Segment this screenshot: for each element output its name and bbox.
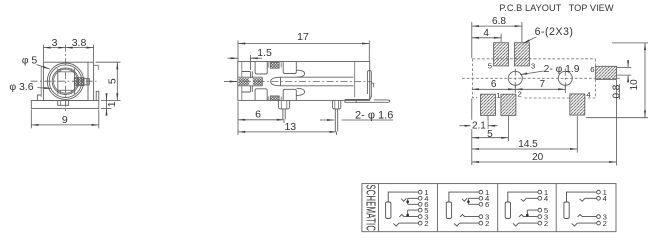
svg-text:2: 2 [485,219,489,228]
top hatch block [268,62,281,68]
wire terminal 4 P4 [580,198,597,201]
dim 5 (pcb) extension [507,116,509,141]
dim 20 [472,152,617,163]
wire terminal 3 P4 [578,215,597,218]
terminal circle 4 P2 [479,194,490,203]
terminal circle 1 P3 [538,188,548,197]
dashed centerline [230,81,372,83]
bushing hole lines [238,77,262,86]
label 2-phi1.9 [520,64,580,75]
svg-text:10: 10 [629,79,640,91]
svg-text:7: 7 [540,79,546,90]
svg-text:6: 6 [491,79,497,90]
dim 5 (right vertical) [107,62,119,100]
right strip tick [371,83,373,87]
dim 10 extensions [586,43,648,118]
dim 6 [238,109,284,121]
right nub pin [84,79,89,85]
bushing hatch left [239,78,250,85]
jack body P2 [446,202,451,219]
svg-text:2: 2 [544,219,548,228]
SIDE VIEW [224,31,393,135]
terminal circle 3 P2 [479,212,489,221]
svg-text:6.8: 6.8 [492,16,506,27]
middle circle phi5 [49,65,82,98]
hole 1 phi1.9 [508,69,522,89]
dim 4 extension [500,34,502,43]
front body right flange [88,62,94,100]
svg-text:TOP VIEW: TOP VIEW [569,3,614,13]
wire terminal 1 P2 [449,192,479,202]
dim 3 / 3.8 extension lines [43,45,93,62]
svg-text:1: 1 [106,101,118,107]
svg-text:2: 2 [518,89,522,98]
terminal circle 1 P4 [597,188,607,197]
wire terminal 2 P4 [572,223,597,226]
pad 1 (bottom) [481,91,501,115]
label phi5 [22,55,50,70]
dim 9 [31,114,99,126]
svg-text:2: 2 [424,219,428,228]
terminal circle 2 P2 [479,219,489,228]
terminal circle 5 P1 [418,206,428,215]
svg-text:2- φ 1.9: 2- φ 1.9 [544,64,580,75]
svg-text:6-(2X3): 6-(2X3) [535,26,574,38]
terminal circle 1 P1 [418,188,428,197]
svg-text:4: 4 [483,28,489,39]
panel 3 [505,188,549,228]
dim 5 extension lines [96,62,121,100]
top contact 2 [283,62,296,74]
terminal circle 2 P1 [418,219,428,228]
svg-text:2: 2 [603,219,607,228]
dim 14.5 [472,139,578,150]
panel divider 2 [497,184,499,232]
dim 3 [43,37,65,49]
pin 2 below body [333,100,341,131]
svg-text:4: 4 [603,194,608,203]
center pin bullet [271,77,281,86]
wire terminal 4 P3 [521,198,538,201]
dim 10 [629,43,645,118]
footprint dashed outline right [523,59,595,98]
right nub hatched [74,78,84,86]
dim 5 (pcb) [472,129,509,140]
dim 20 extension [615,80,617,166]
svg-text:6: 6 [590,65,594,74]
schematic outer box [362,184,616,232]
svg-text:SCHEMATIC: SCHEMATIC [363,184,378,231]
bushing hatch right [253,78,262,85]
horizontal centerline dashed [462,77,621,79]
dim 6 (pcb) [472,79,516,90]
base plate [31,101,99,109]
svg-text:3.8: 3.8 [72,37,87,49]
wire terminal 1 P3 [508,192,538,202]
dim 1.5 [228,47,272,59]
dim 14.5 extension [576,116,578,153]
terminal circle 3 P1 [418,212,428,221]
dim 4 [472,28,501,39]
wire terminal 1 P1 [388,192,418,202]
FRONT VIEW [9,37,120,128]
lower contact 2 [283,89,296,100]
schematic title text [363,184,378,231]
pad 4 (bottom right) [570,90,592,115]
dim 9 extension lines [31,110,99,129]
dim 7 [515,79,565,93]
wire terminal 1 P4 [567,192,597,202]
panel 1 [386,188,430,228]
dim 13 extension line [336,132,338,135]
svg-text:5: 5 [488,61,492,70]
dim 6 extension line [238,102,284,136]
dim 17 extension lines [238,41,369,62]
right contact strip [367,70,371,97]
top right spring hook [297,70,305,77]
wire terminal 2 P2 [454,223,479,226]
front body left step line [40,67,42,98]
left bracket lip [37,95,41,101]
center pin barrel [281,77,354,86]
svg-text:6: 6 [255,109,261,121]
dim 0.8 extensions [617,67,632,75]
pad 5 (top left) [488,43,509,71]
terminal circle 6 P2 [479,200,489,209]
svg-text:P.C.B LAYOUT: P.C.B LAYOUT [499,3,561,13]
schematic title column divider [378,184,380,232]
switch contact 5-3 P3 [519,210,538,217]
terminal circle 4 P1 [418,194,429,203]
terminal circle 6 P1 [418,200,428,209]
dim 1 extension line [101,107,112,109]
front body main rectangle [43,62,88,100]
panel divider 1 [436,184,438,232]
terminal circle 4 P4 [597,194,608,203]
wire terminal 2 P3 [513,223,538,226]
footprint dashed outline left [473,59,478,98]
jack body P3 [505,202,510,219]
svg-text:17: 17 [297,31,309,43]
svg-text:13: 13 [284,121,296,133]
svg-text:5: 5 [487,129,493,140]
label phi3.6 [9,81,51,93]
panel 2 [446,188,490,228]
pad 2 (bottom) [501,89,522,115]
dim 13 [238,121,337,133]
terminal circle 1 P2 [479,188,489,197]
svg-text:9: 9 [62,114,68,126]
svg-text:2.1: 2.1 [472,120,486,131]
svg-text:2- φ 1.6: 2- φ 1.6 [355,110,393,122]
bottom center tab [58,101,69,106]
top contact 1 [255,62,267,75]
jack body P4 [564,202,569,219]
svg-text:3: 3 [531,61,535,70]
panel divider 3 [555,184,557,232]
wire terminal 2 P1 [393,223,418,226]
dim 17 [238,31,369,43]
pin 1 below body [279,100,290,119]
svg-text:3: 3 [52,37,58,49]
outer circle (bezel) [47,63,83,99]
inner slot chords [58,68,75,94]
svg-text:4: 4 [544,194,549,203]
dim 6.8 extension [521,22,523,42]
right bracket lip [96,91,99,100]
front body right step notch [94,65,99,70]
footprint dashed outline top [473,58,596,60]
side body outline [238,62,370,101]
panel 4 [564,188,608,228]
svg-text:6: 6 [485,200,489,209]
pad 3 (top right) [514,43,535,71]
terminal circle 2 P3 [538,219,548,228]
bracket foot [345,96,390,103]
terminal circle 2 P4 [597,219,607,228]
pad 6 (right) [590,65,616,79]
centerline arrow at left face [224,81,237,83]
label 6-(2X3) [523,26,573,43]
inner left wall [241,62,243,101]
horizontal centerline [31,80,97,82]
svg-text:14.5: 14.5 [518,139,538,150]
front wall 1.5mm [242,72,253,93]
dim 2.1 [460,116,498,131]
inner slot horizontals [58,68,75,94]
dim 0.8 [612,61,629,99]
dim 1.5 extension line [249,55,251,70]
lower right spring hook [297,88,305,95]
terminal circle 4 P3 [538,194,549,203]
terminal circle 5 P3 [538,206,548,215]
dim 1 [106,96,118,113]
vertical centerline [65,45,67,112]
switch contact 4-6 P1 [401,198,418,204]
PCB LAYOUT VIEW [460,3,649,165]
dim 6.8 [472,16,522,27]
svg-text:φ 3.6: φ 3.6 [9,81,33,93]
lower hatch block [268,96,281,101]
terminal circle 3 P4 [597,212,607,221]
terminal circle 3 P3 [538,212,548,221]
switch contact 5-3 P1 [399,210,418,217]
left shared extension line [471,22,473,165]
label 2-phi1.6 [320,110,393,122]
inner right wall [354,62,356,98]
dim 3.8 [66,37,94,49]
svg-text:4: 4 [586,90,591,99]
jack body P1 [386,202,391,219]
lower contact 1 [255,89,267,101]
inner circle phi3.6 [52,68,79,95]
svg-text:5: 5 [107,78,119,84]
wire terminal 3 P2 [460,215,479,218]
svg-text:1: 1 [496,91,500,100]
svg-text:1.5: 1.5 [257,47,272,59]
svg-text:φ 5: φ 5 [22,55,38,67]
switch contact 4-6 P2 [462,198,479,204]
svg-text:20: 20 [532,152,544,163]
title P.C.B LAYOUT TOP VIEW [499,3,614,13]
hole 2 phi1.9 [558,69,572,89]
svg-text:0.8: 0.8 [612,84,623,98]
SCHEMATIC BOX [362,184,616,232]
